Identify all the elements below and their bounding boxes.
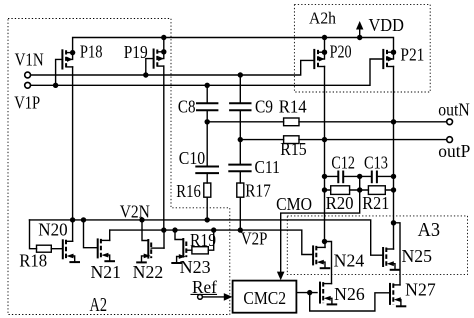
wire N22 gate leg <box>142 220 148 241</box>
junction VDD stub on VDD rail <box>357 35 362 40</box>
svg-text:N26: N26 <box>334 284 365 304</box>
dashed box A2h <box>294 4 430 92</box>
svg-text:R18: R18 <box>19 251 47 271</box>
wire R18 to N20 gate <box>51 248 63 250</box>
node V1N terminal <box>25 72 31 78</box>
svg-text:N21: N21 <box>91 262 122 282</box>
svg-text:P20: P20 <box>330 42 352 62</box>
wire N24 bypass to N26 <box>325 242 332 284</box>
svg-text:R19: R19 <box>190 230 216 250</box>
wire N21 gate leg <box>84 220 98 248</box>
capacitor C8 <box>197 85 217 122</box>
wire N21 drain up to V2P <box>109 230 111 240</box>
svg-text:outN: outN <box>438 99 470 119</box>
junction C12/C13 mid <box>357 174 362 179</box>
transistor P18 <box>62 50 75 69</box>
svg-text:R21: R21 <box>362 193 389 213</box>
wire N22 drain up to V2P <box>163 230 165 248</box>
wire R16 to V2N <box>206 197 208 220</box>
svg-text:C11: C11 <box>255 157 281 177</box>
svg-text:N24: N24 <box>334 250 365 270</box>
svg-text:P21: P21 <box>400 45 424 65</box>
wire CMO line <box>281 176 360 272</box>
wire Ref underline <box>191 293 217 295</box>
resistor R21 <box>368 186 385 195</box>
resistor R17 <box>237 183 244 197</box>
junction N22 gate tap on V2N <box>139 217 144 222</box>
svg-text:V2P: V2P <box>241 228 268 248</box>
junction P19 source on VDD rail <box>161 35 166 40</box>
power VDD symbol <box>356 21 363 38</box>
wire C12 C13 line <box>325 175 394 177</box>
svg-text:C12: C12 <box>331 152 355 172</box>
junction N21 gate tap on V2N <box>81 217 86 222</box>
resistor R19 <box>192 247 208 254</box>
svg-text:P19: P19 <box>124 42 148 62</box>
wire P18 gate tap <box>56 59 63 85</box>
resistor R18 <box>37 245 52 252</box>
transistor N20 <box>63 240 79 262</box>
svg-text:P18: P18 <box>80 42 103 62</box>
transistor N22 <box>137 240 164 262</box>
wire CMO arrow into CMC2 <box>277 272 285 281</box>
svg-text:N22: N22 <box>133 262 164 282</box>
svg-text:C8: C8 <box>178 97 196 117</box>
junction C8 top on V1P <box>205 83 210 88</box>
junction R16 on V2N <box>205 217 210 222</box>
junction N23 gate tap on V2P <box>172 227 177 232</box>
node V1P terminal <box>25 82 31 88</box>
wire P19 drain down to V2P <box>163 66 165 230</box>
svg-text:V1P: V1P <box>14 93 40 113</box>
resistor R15 <box>284 136 299 144</box>
svg-text:CMO: CMO <box>276 194 312 214</box>
wire outP line <box>240 139 283 141</box>
junction R20 left <box>322 187 327 192</box>
wire N23 gate leg <box>175 230 183 239</box>
transistor N24 <box>313 246 329 268</box>
dashed box A3 <box>287 216 467 275</box>
wire P20 source up <box>324 38 326 53</box>
capacitor C9 <box>230 75 250 140</box>
svg-text:A3: A3 <box>418 219 440 241</box>
wire outN line <box>207 121 283 123</box>
wire R17 to V2P <box>239 197 241 230</box>
junction R17 on V2P <box>238 227 243 232</box>
wire N24 drain up <box>324 242 326 248</box>
svg-text:N23: N23 <box>180 257 211 277</box>
junction R20/R21 mid CMO tap <box>357 187 362 192</box>
junction P18 gate tap on V1P <box>53 83 58 88</box>
junction dot N24 drain <box>322 239 327 244</box>
resistor R20 <box>331 186 350 195</box>
wire P19 source up <box>163 38 165 52</box>
junction P20 source on VDD rail <box>322 35 327 40</box>
wire V2P bus to N24 gate <box>110 230 313 254</box>
wire CMC2 output to N26 gate <box>296 292 317 294</box>
svg-text:C13: C13 <box>364 152 388 172</box>
svg-text:C9: C9 <box>255 97 273 117</box>
svg-text:N25: N25 <box>402 246 433 266</box>
wire N20 drain up <box>72 220 74 241</box>
wire under-route to N27 gate <box>310 293 390 311</box>
svg-text:N27: N27 <box>405 280 436 300</box>
dashed box A2 <box>8 19 230 315</box>
svg-text:Ref: Ref <box>192 277 217 297</box>
svg-text:V2N: V2N <box>120 202 151 222</box>
transistor P19 <box>154 49 167 68</box>
transistor P21 <box>383 50 396 69</box>
wire P19 gate tap <box>146 59 154 75</box>
junction P19 gate tap on V1N <box>143 72 148 77</box>
box CMC2 <box>233 281 297 313</box>
wire P18 drain down to V2N <box>72 67 74 220</box>
junction P19/N22 drains on V2P <box>161 227 166 232</box>
svg-text:R15: R15 <box>280 139 307 159</box>
wire R20 R21 line <box>325 189 394 191</box>
junction dot CMC2 out <box>307 290 312 295</box>
svg-text:R16: R16 <box>176 181 201 201</box>
svg-text:R20: R20 <box>326 193 354 213</box>
resistor R14 <box>284 118 299 126</box>
wire N25 bypass to N27 <box>394 223 401 285</box>
wire V1P line to P21 gate <box>30 59 383 85</box>
junction C9 top on V1N <box>238 72 243 77</box>
svg-text:CMC2: CMC2 <box>243 288 286 308</box>
transistor N27 <box>390 283 405 306</box>
wire R19 to V2P <box>208 230 213 250</box>
wire V1N line to P20 gate <box>30 60 314 75</box>
junction P21 drain on outN <box>391 119 396 124</box>
svg-text:R14: R14 <box>279 97 307 117</box>
capacitor C11 <box>229 140 250 183</box>
node Ref terminal <box>198 295 203 300</box>
svg-text:VDD: VDD <box>369 15 404 35</box>
transistor N26 <box>320 282 336 304</box>
wire P20 drain down through outP to N24 <box>324 67 326 242</box>
junction C12 left <box>322 174 327 179</box>
node outP terminal <box>447 137 453 143</box>
svg-text:R17: R17 <box>245 181 271 201</box>
junction P18/N20 drains on V2N <box>70 217 75 222</box>
wire V2N bus to N25 gate <box>30 220 384 255</box>
svg-text:outP: outP <box>438 141 470 161</box>
resistor R16 <box>204 183 211 197</box>
svg-text:A2: A2 <box>90 294 108 316</box>
svg-text:A2h: A2h <box>309 9 336 28</box>
transistor N25 <box>383 248 399 270</box>
junction dot N25 drain <box>391 220 396 225</box>
wire P21 drain down through outN to N25 <box>393 67 395 250</box>
transistor P20 <box>314 50 327 69</box>
svg-text:V1N: V1N <box>15 50 44 70</box>
transistor N23 <box>172 239 192 263</box>
wire V2N left leg to R18 <box>30 220 37 249</box>
svg-text:N20: N20 <box>38 220 68 240</box>
wire VDD rail <box>73 38 394 53</box>
junction C8/C10 on outN <box>205 119 210 124</box>
junction R21 right <box>391 187 396 192</box>
svg-text:C10: C10 <box>179 148 206 168</box>
node outN terminal <box>447 119 453 125</box>
capacitor C12 <box>338 172 343 183</box>
transistor N21 <box>98 239 114 261</box>
capacitor C10 <box>196 122 218 183</box>
junction C13 right <box>391 174 396 179</box>
wire Ref to CMC2 with arrow <box>202 296 224 298</box>
junction R19 tap on V2P <box>211 227 216 232</box>
junction P20 drain on outP <box>322 137 327 142</box>
capacitor C13 <box>372 172 377 183</box>
junction C9/C11 on outP <box>238 137 243 142</box>
